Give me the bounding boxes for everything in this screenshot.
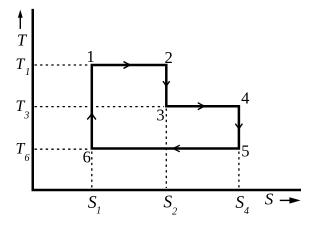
svg-text:2: 2 — [172, 207, 177, 218]
svg-text:4: 4 — [241, 89, 249, 108]
svg-text:1: 1 — [96, 206, 101, 217]
S axis arrow — [280, 197, 301, 203]
svg-text:6: 6 — [25, 153, 30, 164]
svg-text:4: 4 — [244, 206, 249, 217]
svg-text:5: 5 — [241, 141, 249, 160]
arrow 1-2 — [124, 62, 131, 69]
svg-text:S: S — [265, 190, 274, 209]
dotted line S2 — [165, 109, 167, 189]
svg-text:S: S — [235, 192, 244, 212]
svg-text:1: 1 — [25, 67, 30, 78]
svg-text:2: 2 — [164, 48, 172, 67]
svg-text:3: 3 — [23, 110, 29, 121]
svg-text:6: 6 — [83, 148, 91, 167]
svg-text:3: 3 — [156, 106, 164, 125]
T axis arrow — [18, 10, 23, 29]
svg-text:S: S — [163, 192, 172, 212]
axes (T vertical, S horizontal) — [32, 9, 302, 190]
dotted line T6 — [35, 148, 90, 150]
svg-text:T: T — [16, 56, 26, 73]
dotted line T1 — [35, 64, 89, 66]
arrow 6-1 — [87, 113, 96, 120]
dotted line S4 — [238, 152, 240, 189]
arrow 3-4 — [198, 103, 205, 110]
arrow 2-3 — [163, 81, 170, 87]
svg-text:1: 1 — [86, 47, 94, 66]
arrow 4-5 — [235, 124, 242, 130]
cycle 1-2-3-4-5-6 — [92, 65, 239, 149]
dotted line T3 — [35, 106, 165, 108]
arrow 5-6 — [173, 145, 180, 152]
dotted line S1 — [91, 152, 93, 189]
